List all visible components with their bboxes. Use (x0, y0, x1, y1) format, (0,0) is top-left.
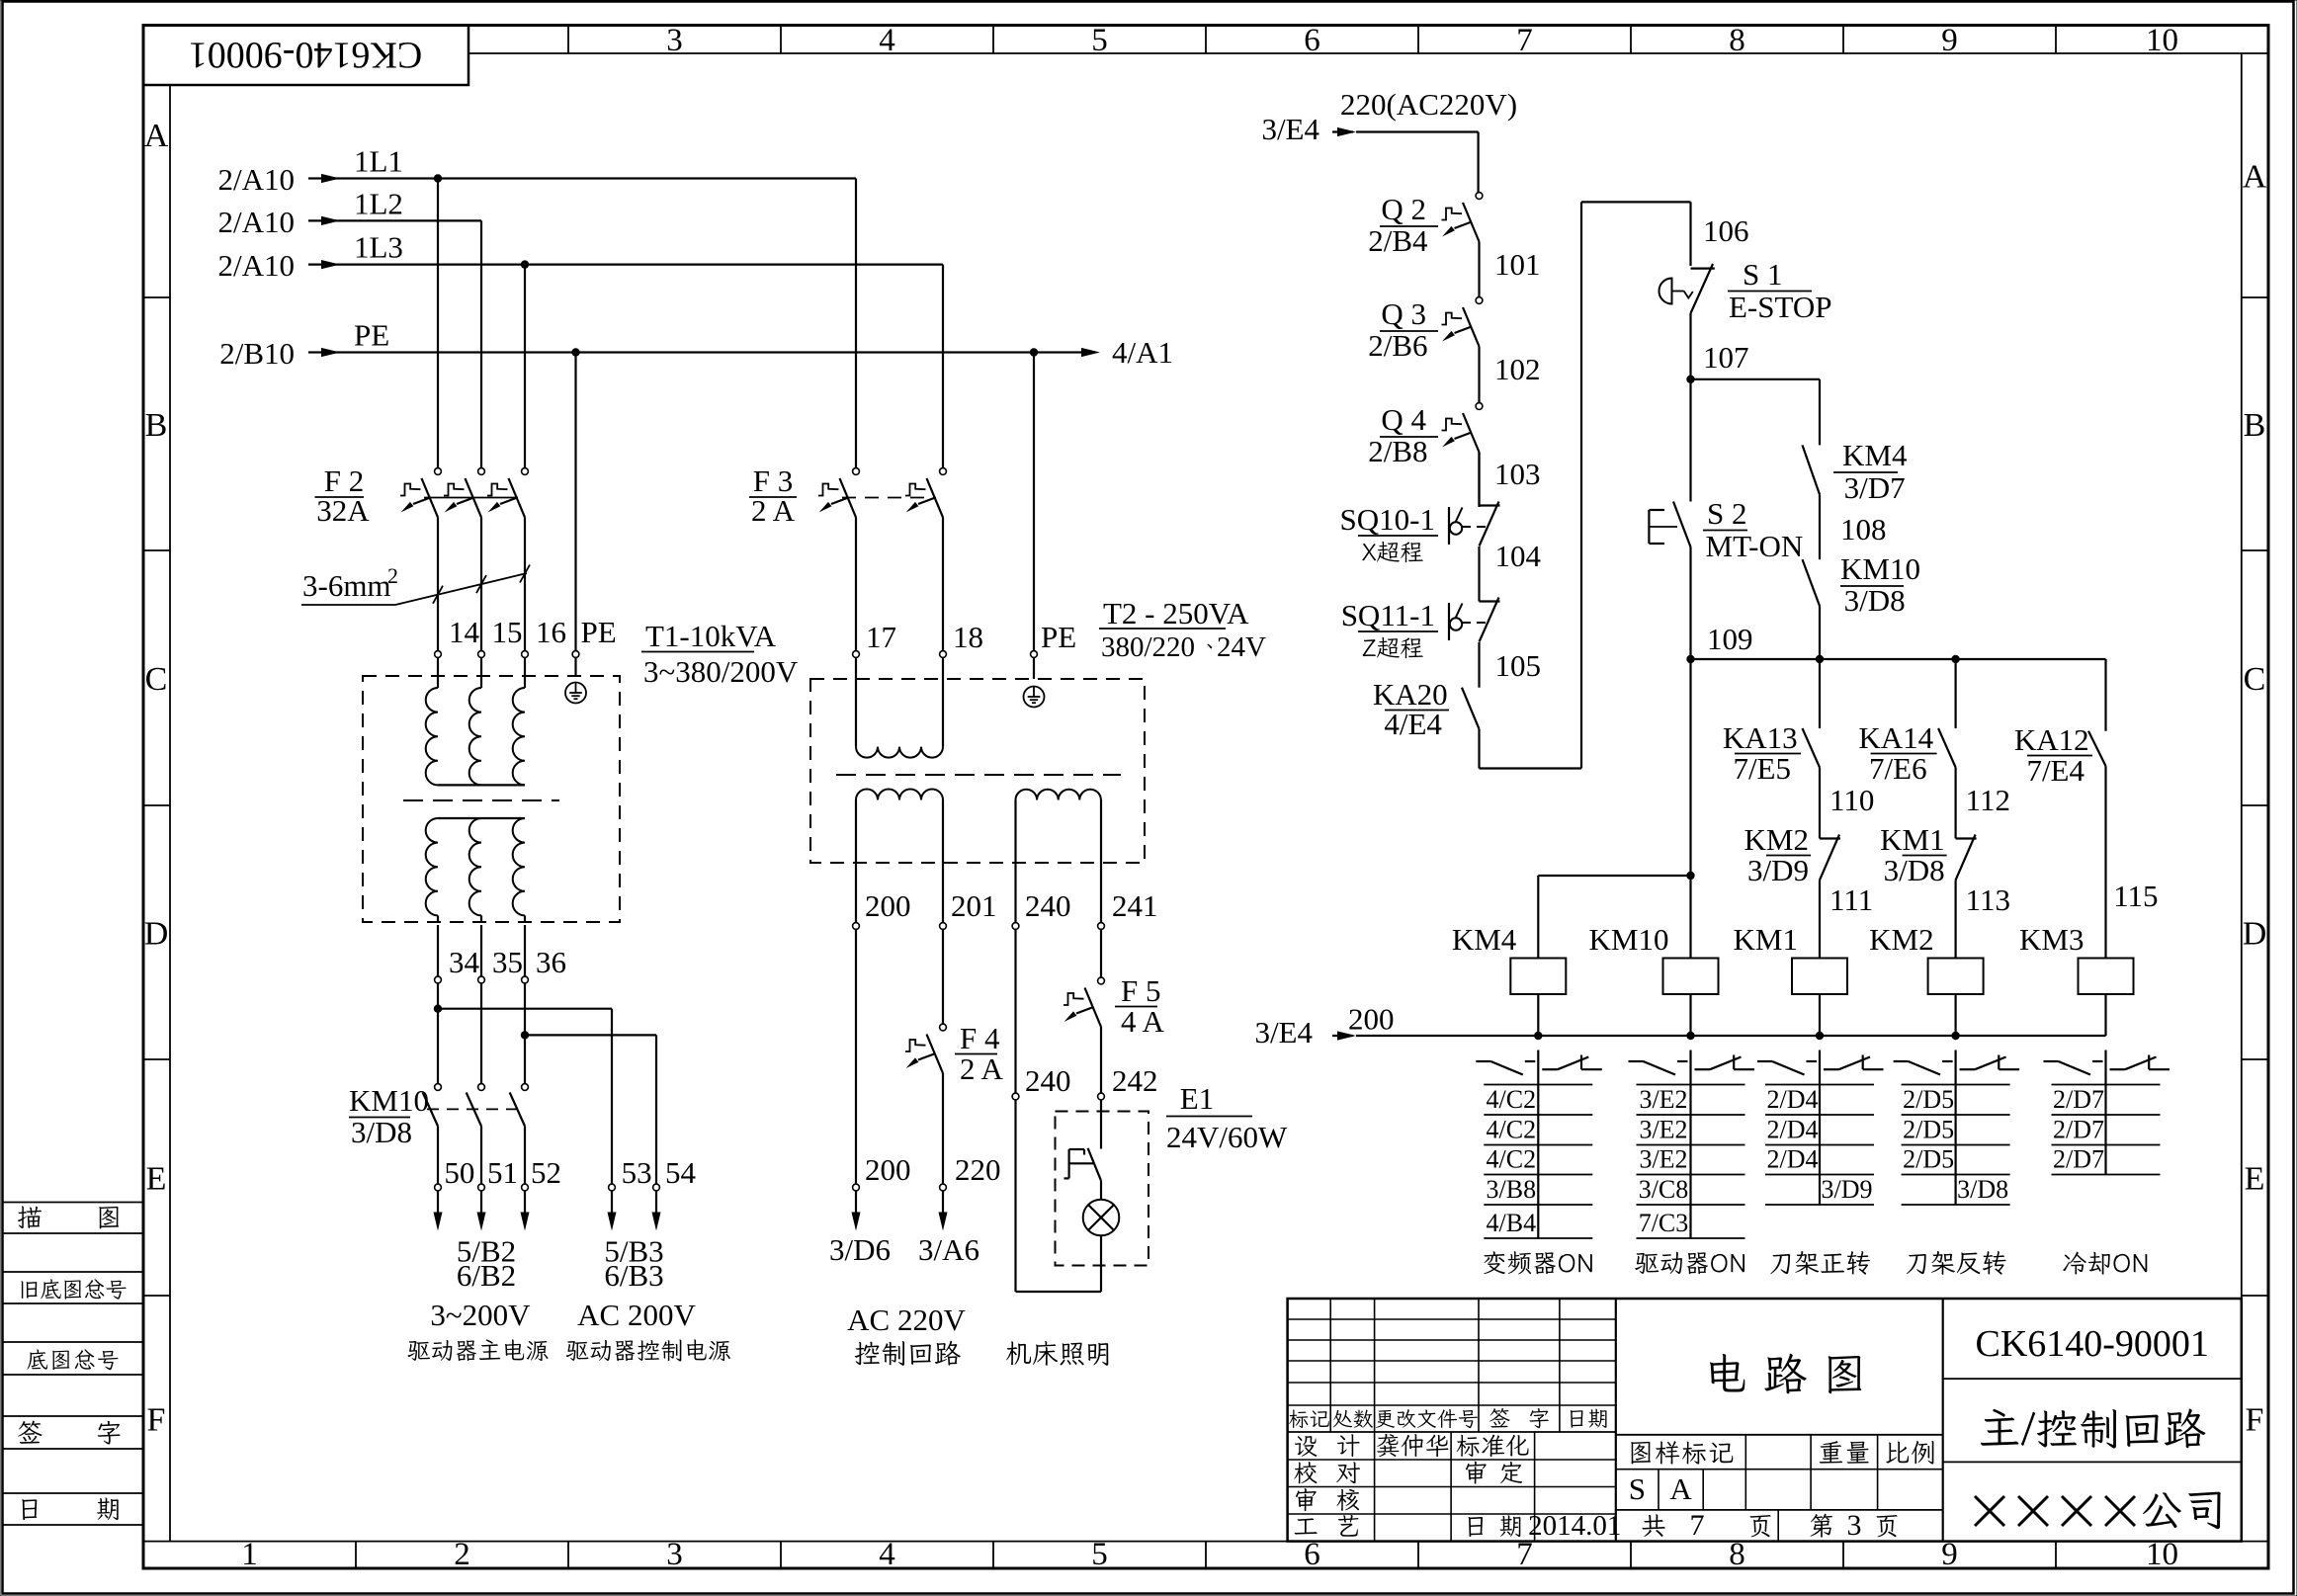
svg-text:3/D7: 3/D7 (1844, 470, 1906, 505)
svg-text:KM4: KM4 (1452, 922, 1517, 957)
svg-text:7/C3: 7/C3 (1639, 1209, 1689, 1237)
svg-text:3/C8: 3/C8 (1639, 1175, 1689, 1204)
svg-text:18: 18 (953, 620, 983, 654)
svg-text:112: 112 (1966, 783, 2010, 817)
svg-text:KA13: KA13 (1723, 720, 1798, 755)
svg-text:AC 220V: AC 220V (847, 1302, 966, 1337)
svg-text:200: 200 (865, 888, 911, 923)
svg-text:2/D4: 2/D4 (1767, 1145, 1819, 1174)
svg-text:3/E4: 3/E4 (1254, 1015, 1313, 1050)
svg-text:3/E4: 3/E4 (1261, 112, 1319, 146)
svg-text:3: 3 (666, 1537, 683, 1572)
svg-text:5: 5 (1091, 23, 1108, 58)
svg-text:F: F (2246, 1401, 2264, 1438)
svg-text:1L3: 1L3 (354, 230, 403, 265)
svg-text:4: 4 (879, 1537, 895, 1572)
svg-text:3/D8: 3/D8 (351, 1115, 412, 1149)
svg-text:3/D8: 3/D8 (1844, 583, 1906, 618)
svg-text:2/B8: 2/B8 (1368, 434, 1427, 468)
svg-text:7/E5: 7/E5 (1733, 751, 1791, 786)
svg-text:E-STOP: E-STOP (1729, 290, 1832, 324)
svg-text:4/E4: 4/E4 (1384, 707, 1442, 741)
svg-text:2/D4: 2/D4 (1767, 1116, 1819, 1144)
svg-text:AC 200V: AC 200V (577, 1298, 696, 1332)
svg-text:102: 102 (1494, 352, 1541, 386)
svg-text:15: 15 (492, 615, 523, 649)
svg-text:200: 200 (865, 1152, 911, 1187)
svg-text:3/D6: 3/D6 (829, 1232, 891, 1267)
svg-text:E: E (146, 1161, 167, 1198)
svg-text:PE: PE (1041, 620, 1076, 654)
svg-text:107: 107 (1703, 340, 1749, 375)
svg-text:240: 240 (1025, 888, 1071, 923)
svg-text:F 4: F 4 (960, 1021, 1000, 1055)
svg-text:2 A: 2 A (751, 493, 796, 528)
svg-text:E1: E1 (1180, 1081, 1214, 1116)
svg-text:PE: PE (581, 615, 617, 649)
svg-text:50: 50 (444, 1155, 474, 1190)
svg-text:2/A10: 2/A10 (218, 205, 296, 239)
svg-text:3~200V: 3~200V (430, 1298, 531, 1332)
svg-text:2/D7: 2/D7 (2053, 1085, 2104, 1114)
svg-text:6/B3: 6/B3 (604, 1258, 663, 1293)
svg-text:Q 4: Q 4 (1381, 402, 1426, 437)
svg-text:KM10: KM10 (1589, 922, 1669, 957)
svg-text:241: 241 (1112, 888, 1158, 923)
svg-text:KM2: KM2 (1744, 822, 1809, 857)
svg-text:111: 111 (1829, 882, 1873, 917)
svg-text:14: 14 (449, 615, 480, 649)
svg-text:16: 16 (536, 615, 566, 649)
svg-text:7/E6: 7/E6 (1869, 751, 1927, 786)
svg-text:KM4: KM4 (1842, 438, 1908, 472)
svg-text:Q 3: Q 3 (1381, 296, 1426, 331)
svg-text:201: 201 (951, 888, 997, 923)
svg-text:2: 2 (387, 563, 398, 588)
svg-text:2014.01: 2014.01 (1528, 1510, 1621, 1542)
svg-text:110: 110 (1829, 783, 1874, 817)
svg-text:103: 103 (1494, 457, 1541, 491)
svg-text:34: 34 (449, 945, 480, 979)
svg-text:113: 113 (1966, 882, 2010, 917)
svg-text:D: D (144, 916, 169, 953)
svg-text:8: 8 (1729, 23, 1745, 58)
svg-text:3/E2: 3/E2 (1639, 1145, 1687, 1174)
svg-text:Q 2: Q 2 (1381, 192, 1426, 226)
svg-text:KM3: KM3 (2019, 922, 2084, 957)
svg-text:S 1: S 1 (1743, 257, 1783, 292)
svg-text:C: C (145, 661, 168, 698)
svg-text:4/B4: 4/B4 (1487, 1209, 1537, 1237)
svg-text:17: 17 (866, 620, 896, 654)
svg-text:4/C2: 4/C2 (1487, 1145, 1537, 1174)
svg-text:115: 115 (2113, 879, 2158, 913)
svg-text:3-6mm: 3-6mm (302, 568, 391, 603)
svg-text:104: 104 (1495, 539, 1542, 573)
svg-text:36: 36 (536, 945, 566, 979)
svg-text:3/D9: 3/D9 (1747, 853, 1809, 887)
svg-text:2 A: 2 A (960, 1051, 1004, 1086)
svg-text:101: 101 (1494, 247, 1541, 282)
svg-text:T2 - 250VA: T2 - 250VA (1103, 596, 1249, 630)
svg-text:C: C (2244, 661, 2266, 698)
svg-text:242: 242 (1112, 1063, 1158, 1098)
svg-text:3/B8: 3/B8 (1487, 1175, 1537, 1204)
svg-text:KA12: KA12 (2014, 722, 2089, 757)
svg-text:2/B4: 2/B4 (1368, 223, 1428, 258)
svg-text:2/D5: 2/D5 (1903, 1085, 1954, 1114)
svg-text:7: 7 (1690, 1509, 1705, 1542)
svg-text:PE: PE (354, 318, 389, 353)
svg-text:3: 3 (666, 23, 683, 58)
svg-text:1: 1 (241, 1537, 258, 1572)
svg-text:3: 3 (1847, 1509, 1862, 1542)
svg-text:220(AC220V): 220(AC220V) (1340, 87, 1517, 122)
svg-text:9: 9 (1941, 23, 1958, 58)
svg-text:A: A (1669, 1471, 1692, 1506)
svg-text:1L2: 1L2 (354, 186, 403, 220)
svg-text:3/D8: 3/D8 (1957, 1175, 2008, 1204)
svg-text:108: 108 (1840, 512, 1887, 546)
svg-text:7/E4: 7/E4 (2026, 753, 2084, 788)
svg-text:4: 4 (879, 23, 895, 58)
svg-text:MT-ON: MT-ON (1706, 529, 1804, 563)
svg-text:3~380/200V: 3~380/200V (643, 654, 799, 689)
svg-text:2: 2 (454, 1537, 470, 1572)
svg-text:54: 54 (665, 1155, 697, 1190)
svg-text:A: A (2243, 159, 2267, 196)
svg-text:E: E (2245, 1161, 2265, 1198)
svg-text:SQ11-1: SQ11-1 (1341, 598, 1435, 632)
svg-text:F 5: F 5 (1121, 973, 1161, 1008)
svg-text:2/B10: 2/B10 (219, 336, 295, 371)
svg-text:KA14: KA14 (1858, 720, 1933, 755)
svg-text:T1-10kVA: T1-10kVA (645, 619, 777, 653)
svg-text:S 2: S 2 (1707, 496, 1747, 531)
svg-text:2/A10: 2/A10 (218, 162, 296, 197)
svg-text:2/D7: 2/D7 (2053, 1116, 2104, 1144)
svg-text:24V/60W: 24V/60W (1166, 1120, 1288, 1154)
svg-text:109: 109 (1707, 622, 1753, 656)
svg-text:2/B6: 2/B6 (1368, 328, 1427, 363)
svg-text:B: B (145, 407, 168, 444)
svg-text:KM10: KM10 (349, 1083, 429, 1118)
svg-text:CK6140-90001: CK6140-90001 (189, 35, 422, 76)
svg-text:10: 10 (2146, 23, 2178, 58)
svg-text:380/220: 380/220 (1101, 631, 1195, 663)
svg-text:CK6140-90001: CK6140-90001 (1975, 1323, 2208, 1365)
svg-text:2/A10: 2/A10 (218, 248, 296, 283)
svg-text:3/D8: 3/D8 (1884, 853, 1945, 887)
svg-text:105: 105 (1495, 648, 1542, 683)
svg-text:2/D7: 2/D7 (2053, 1145, 2104, 1174)
svg-text:51: 51 (487, 1155, 518, 1190)
svg-text:2/D4: 2/D4 (1767, 1085, 1819, 1114)
svg-text:3/D9: 3/D9 (1822, 1175, 1873, 1204)
svg-text:KM1: KM1 (1734, 922, 1798, 957)
svg-text:4 A: 4 A (1121, 1004, 1165, 1039)
svg-text:4/A1: 4/A1 (1112, 335, 1173, 370)
svg-text:2/D5: 2/D5 (1903, 1145, 1954, 1174)
svg-text:53: 53 (622, 1155, 652, 1190)
svg-text:B: B (2244, 407, 2266, 444)
svg-text:SQ10-1: SQ10-1 (1340, 502, 1435, 537)
svg-text:KM10: KM10 (1840, 551, 1920, 586)
svg-text:5: 5 (1091, 1537, 1108, 1572)
svg-text:1L1: 1L1 (354, 144, 403, 179)
svg-text:6: 6 (1304, 23, 1320, 58)
svg-text:6/B2: 6/B2 (457, 1258, 516, 1293)
svg-text:3/E2: 3/E2 (1639, 1085, 1687, 1114)
svg-text:KM1: KM1 (1880, 822, 1944, 857)
svg-text:F: F (147, 1401, 166, 1438)
svg-text:200: 200 (1348, 1002, 1395, 1037)
svg-text:2/D5: 2/D5 (1903, 1116, 1954, 1144)
svg-text:220: 220 (955, 1152, 1001, 1187)
svg-text:KM2: KM2 (1869, 922, 1933, 957)
svg-text:240: 240 (1025, 1063, 1071, 1098)
svg-text:A: A (144, 118, 169, 154)
svg-text:4/C2: 4/C2 (1487, 1116, 1537, 1144)
svg-text:S: S (1629, 1471, 1646, 1506)
svg-text:D: D (2243, 916, 2267, 953)
svg-text:35: 35 (492, 945, 523, 979)
svg-text:106: 106 (1703, 213, 1749, 248)
svg-text:3/E2: 3/E2 (1639, 1116, 1687, 1144)
svg-text:24V: 24V (1217, 631, 1266, 663)
svg-text:32A: 32A (316, 493, 370, 528)
svg-text:3/A6: 3/A6 (918, 1232, 979, 1267)
svg-text:7: 7 (1516, 23, 1533, 58)
svg-text:52: 52 (531, 1155, 561, 1190)
svg-text:4/C2: 4/C2 (1487, 1085, 1537, 1114)
